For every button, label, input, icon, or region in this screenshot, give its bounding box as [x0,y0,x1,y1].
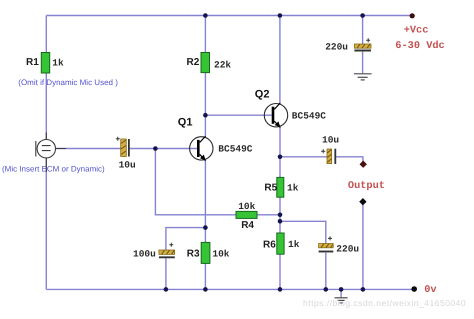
wire R4 to R5/R6 node [257,214,280,216]
junction Q1 collector node [203,113,208,118]
junction Q1 base node [153,146,158,151]
wire mic to C1 [56,148,121,150]
svg-text:10k: 10k [212,249,229,260]
junction Q2 emitter output tap [278,155,283,160]
transistor Q2 BC549C [255,88,327,127]
junction C4 branch node [278,219,283,224]
capacitor C1 10u input [116,137,136,171]
junction bottom rail at GND2 [339,287,344,292]
svg-text:R4: R4 [241,220,254,231]
svg-text:(Omit if Dynamic Mic Used ): (Omit if Dynamic Mic Used ) [18,78,118,87]
resistor R2 22k [187,53,232,73]
wire bottom rail 0v [46,288,414,290]
junction bottom rail at output ground [361,287,366,292]
svg-text:1k: 1k [288,239,300,250]
svg-text:R6: R6 [263,240,276,251]
wire feedback C1 node down to R4 [155,149,236,215]
svg-text:100u: 100u [133,249,156,260]
capacitor C5 10u output [321,134,339,164]
wire Q2 emitter to R5 R6 chain [279,127,281,289]
resistor R5 1k [264,177,298,197]
wire R2 column / Q1 collector [204,16,206,137]
svg-text:BC549C: BC549C [292,111,327,122]
wire C5 to output terminal [336,157,363,162]
capacitor C3 100u emitter bypass [133,243,175,260]
terminal Output upper diamond [360,161,367,168]
wire top rail Vcc [46,15,412,17]
terminal Output lower diamond [359,198,366,205]
svg-text:1k: 1k [287,182,299,193]
svg-text:22k: 22k [214,59,231,70]
microphone MIC1 [36,133,66,173]
svg-text:Output: Output [348,180,385,192]
junction top rail at C2 [360,13,365,18]
svg-text:https://blog.csdn.net/weixin_4: https://blog.csdn.net/weixin_41650040 [303,298,466,308]
svg-text:R1: R1 [26,57,39,68]
resistor R1 1k [26,53,64,74]
wire left column R1/mic [45,16,47,290]
resistor R3 10k [187,242,230,263]
svg-text:(Mic Insert ECM or Dynamic): (Mic Insert ECM or Dynamic) [2,164,105,173]
resistor R6 1k [263,233,300,254]
svg-text:R2: R2 [187,57,200,68]
junction bottom rail at C3 [164,287,169,292]
wire output tap to C5 [280,156,327,158]
wire Q2 collector [279,16,281,104]
junction top rail at R2 [203,13,208,18]
capacitor C4 220u output load [319,236,360,254]
wire Q1 emitter to R3 [204,160,206,289]
resistor R4 10k horizontal [236,201,257,231]
svg-text:BC549C: BC549C [218,143,253,154]
svg-text:R3: R3 [187,248,200,259]
wire bottom ground stub [340,289,342,297]
svg-text:220u: 220u [325,41,348,52]
terminal +Vcc dot [410,13,415,18]
svg-text:10u: 10u [119,159,136,170]
wire output ground terminal down [362,204,364,289]
svg-text:1k: 1k [52,58,64,69]
junction bottom rail at R3 [203,287,208,292]
svg-text:220u: 220u [336,243,359,254]
svg-text:6-30 Vdc: 6-30 Vdc [395,40,444,52]
junction bottom rail at R6 [278,287,283,292]
svg-text:10u: 10u [322,134,339,145]
junction top rail at Q2 collector [278,13,283,18]
junction bottom rail at C4 [324,287,329,292]
svg-text:10k: 10k [238,201,255,212]
svg-text:+Vcc: +Vcc [404,25,429,37]
svg-text:R5: R5 [264,182,277,193]
wire top 220u cap column [362,16,364,74]
junction R3 top node [203,225,208,230]
wire Q1 collector to Q2 base [205,114,271,116]
terminal 0v dot [411,286,417,292]
ground GND1 top [354,74,372,80]
ground GND2 bottom [335,298,348,303]
svg-text:0v: 0v [424,284,436,296]
wire R3 top branch to C3 100u [166,228,206,290]
junction R4 right node [278,213,283,218]
wire C1 to Q1 base [130,148,197,150]
transistor Q1 BC549C [178,117,253,161]
svg-text:Q2: Q2 [255,88,270,100]
capacitor C2 220u top rail decoupling [325,38,371,52]
wire node to C4 220u [280,221,326,289]
svg-text:Q1: Q1 [178,117,193,129]
